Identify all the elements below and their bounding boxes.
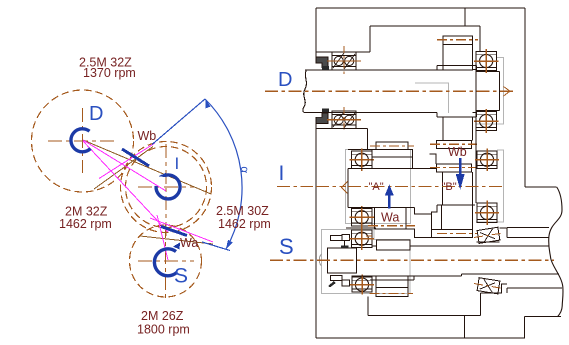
bearing I upper-left ball bbox=[355, 153, 368, 166]
tapered bearing S lower-right bbox=[477, 278, 500, 294]
S coupling cap bottom 1 bbox=[331, 276, 343, 281]
bearing I upper-right races bbox=[477, 154, 497, 165]
svg-text:D: D bbox=[278, 69, 292, 91]
bearing I upper-left square bbox=[352, 151, 373, 169]
shaft S bottom edge right bbox=[462, 273, 560, 275]
svg-text:Wa: Wa bbox=[180, 236, 198, 250]
bearing D lower-right ball bbox=[480, 114, 493, 127]
seal D upper spacer bbox=[322, 66, 329, 70]
rotation arrow gear S arrowhead bbox=[173, 243, 180, 250]
bearing D upper-right square bbox=[476, 52, 497, 71]
bearing D lower-left diagonals bbox=[333, 112, 355, 128]
magenta line D-I mesh to S center bbox=[157, 215, 168, 260]
gear S upper ring bbox=[376, 240, 410, 250]
bearing D lower-left square bbox=[332, 111, 356, 129]
svg-text:2.5M 30Z: 2.5M 30Z bbox=[216, 204, 269, 218]
svg-text:Wb: Wb bbox=[138, 129, 157, 143]
svg-text:S: S bbox=[174, 265, 188, 288]
gray phantom box I assembly left bbox=[346, 150, 411, 224]
bearing D lower-right cross bbox=[474, 120, 499, 122]
svg-text:D: D bbox=[89, 103, 103, 125]
bearing S upper-left races bbox=[352, 233, 373, 244]
bearing S upper-left square bbox=[352, 230, 373, 248]
bearing D upper-right races bbox=[476, 55, 497, 68]
bearing I upper-right cross bbox=[475, 159, 499, 161]
bearing I lower-left cross bbox=[350, 216, 375, 218]
bearing I lower-right ball bbox=[480, 206, 493, 219]
shaft I center mark bbox=[342, 182, 348, 194]
cavity ceiling right of bearing bbox=[507, 227, 549, 229]
housing web between I and S bearings bbox=[346, 227, 376, 229]
shaft I left end face bbox=[347, 169, 349, 208]
gear I pitch circle inner 2M (dashed) bbox=[126, 147, 207, 228]
bearing D lower-left races bbox=[332, 115, 356, 126]
bearing D upper-left races bbox=[332, 56, 356, 67]
shaft D end face bbox=[499, 72, 501, 111]
casing inner pocket top bbox=[370, 25, 480, 27]
bearing I lower-left races bbox=[352, 212, 373, 223]
shaft I top edge bbox=[348, 168, 437, 170]
bearing I lower-right cross bbox=[475, 212, 499, 214]
svg-text:Wb: Wb bbox=[448, 145, 467, 159]
rotation arrow gear I bbox=[156, 175, 180, 199]
casing bore line lower right bbox=[507, 288, 562, 293]
arrow Wb down bbox=[459, 158, 462, 174]
magenta line at I-S mesh to dimension tail bbox=[150, 218, 213, 242]
arc arrowhead bottom bbox=[226, 240, 233, 249]
bearing D upper-left diagonals bbox=[333, 53, 355, 69]
gear S upper pitch stub bbox=[366, 235, 372, 237]
gear B upper pitch line bbox=[430, 167, 477, 169]
seal D upper bbox=[316, 57, 328, 67]
bearing D lower-left center horiz bbox=[327, 119, 361, 121]
bearing I upper-left cross bbox=[350, 159, 375, 161]
housing top of I bearing bbox=[348, 149, 375, 151]
gear A upper shoulder bbox=[372, 149, 413, 157]
gear D centerline horizontal bbox=[48, 140, 114, 142]
gear D pitch circle (dashed) bbox=[32, 90, 134, 192]
gear S pitch circle (dashed) bbox=[130, 225, 202, 297]
centerline shaft I bbox=[277, 186, 346, 188]
S coupling body bbox=[328, 248, 357, 273]
shaft S top edge bbox=[372, 245, 549, 247]
svg-text:"A": "A" bbox=[369, 181, 384, 193]
gear S centerline horizontal bbox=[138, 260, 194, 262]
gray phantom box D right bbox=[476, 57, 504, 124]
shaft D break squiggle bbox=[303, 70, 307, 113]
bearing I upper-right square bbox=[477, 151, 497, 169]
arrow Wa up bbox=[388, 194, 391, 209]
S coupling cap top 1 bbox=[331, 235, 343, 240]
magenta line D center to I-S mesh bbox=[83, 141, 168, 232]
S coupling cap top 2 bbox=[342, 234, 349, 240]
seal D lower bbox=[316, 113, 328, 124]
svg-text:I: I bbox=[175, 154, 180, 173]
pocket left wall bbox=[369, 26, 371, 52]
housing line above D bearing bbox=[316, 51, 370, 53]
svg-text:1462 rpm: 1462 rpm bbox=[59, 217, 112, 231]
bearing S housing step upper bbox=[500, 228, 507, 237]
gear D rim root line bbox=[443, 44, 473, 46]
svg-text:2M 26Z: 2M 26Z bbox=[141, 309, 184, 323]
casing left wall lower bbox=[315, 122, 317, 338]
casing top plate bbox=[316, 7, 525, 9]
bearing I lower-left ball bbox=[355, 211, 368, 224]
casing bore line upper right bbox=[507, 236, 549, 238]
gear S lower block bbox=[376, 280, 408, 297]
gear D hub flange top bbox=[437, 66, 477, 70]
bearing S lower-left races bbox=[352, 280, 372, 289]
rotation arrow gear I arrowhead bbox=[158, 173, 166, 177]
gray phantom line near D hub bbox=[415, 83, 448, 113]
shaft D step at gear bbox=[473, 70, 477, 113]
shaft D bottom edge bbox=[304, 112, 437, 114]
casing left wall upper bbox=[315, 8, 317, 57]
S coupling cap top line bbox=[331, 241, 350, 246]
gear A upper teeth bbox=[376, 142, 408, 149]
gear S lower connectors bbox=[376, 276, 414, 280]
casing right wall bbox=[524, 8, 526, 187]
bearing S upper-left cross bbox=[350, 238, 375, 240]
arrow Wa head bbox=[385, 185, 394, 196]
bearing D lower-right races bbox=[476, 115, 497, 128]
thick blue contact segment Wa (I-S mesh) bbox=[161, 227, 187, 236]
break line wavy right bbox=[549, 187, 563, 317]
gear D lower teeth band bbox=[437, 141, 472, 149]
bearing D lower-left centerline bbox=[343, 107, 345, 132]
bearing D lower-right square bbox=[476, 112, 497, 131]
gear A upper hub sides bbox=[372, 157, 413, 169]
gear D pitch line top bbox=[437, 39, 478, 41]
gear B lower teeth band bbox=[432, 229, 473, 237]
casing floor under gear S bbox=[368, 293, 481, 316]
gear B web sides bbox=[442, 172, 472, 205]
shaft I bottom edge bbox=[348, 207, 414, 209]
bearing I lower-left square bbox=[352, 209, 373, 227]
gear I centerline horizontal bbox=[138, 186, 195, 188]
gear D rim bbox=[443, 36, 473, 70]
S coupling cap bottom 2 bbox=[342, 280, 349, 286]
bearing I lower-right square bbox=[477, 203, 497, 223]
centerline shaft S bbox=[270, 259, 554, 261]
bearing I upper-left races bbox=[352, 154, 373, 165]
bearing S lower-left cross bbox=[350, 284, 374, 286]
centerline shaft D bbox=[265, 90, 513, 92]
gear I centerline vertical bbox=[165, 144, 167, 240]
gray phantom box I right bbox=[476, 150, 504, 222]
shaft D top edge bbox=[305, 69, 443, 71]
casing step under D lower bearing bbox=[316, 129, 367, 150]
svg-text:1800 rpm: 1800 rpm bbox=[137, 323, 190, 337]
bearing housing wall right of pocket bbox=[479, 26, 481, 52]
gear S pitch line bottom bbox=[370, 293, 414, 295]
bearing D upper-left center horiz bbox=[327, 60, 361, 62]
bearing S lower-left ball bbox=[355, 278, 368, 291]
svg-text:1462 rpm: 1462 rpm bbox=[218, 217, 271, 231]
casing web vertical to bottom bbox=[464, 316, 466, 339]
gear A lower hub sides bbox=[375, 208, 406, 230]
brown line at I-S mesh bbox=[140, 236, 213, 244]
bearing D upper-left balls bbox=[334, 56, 343, 65]
bearing I upper-right ball bbox=[480, 153, 493, 166]
gear A pitch line top bbox=[370, 145, 414, 147]
rotation arrow gear S bbox=[154, 249, 177, 276]
gear D centerline vertical bbox=[82, 108, 84, 173]
casing right flange top bbox=[525, 186, 557, 188]
arc arrowhead top bbox=[206, 100, 211, 109]
angle dimension arc bbox=[205, 99, 242, 249]
bearing column wall right bbox=[475, 71, 477, 204]
gear D lower pitch line bbox=[430, 143, 477, 145]
casing bottom right corner bbox=[525, 317, 561, 338]
shaft D right section bottom bbox=[477, 110, 500, 112]
brown line of action at D-I mesh bbox=[94, 147, 153, 190]
bearing S upper-left ball bbox=[355, 232, 368, 245]
casing bottom plate bbox=[316, 337, 525, 339]
shaft S step bbox=[461, 274, 463, 276]
svg-text:1370 rpm: 1370 rpm bbox=[83, 66, 136, 80]
angle dimension tail line bbox=[202, 242, 230, 251]
bearing D upper-right cross bbox=[474, 60, 499, 62]
S shaft left center mark bbox=[319, 254, 321, 266]
gray phantom box S assembly bbox=[322, 230, 411, 294]
arrow Wb head bbox=[456, 174, 465, 190]
bearing D upper-right ball bbox=[480, 54, 493, 67]
gear S lower shoulder line bbox=[370, 279, 414, 281]
gear B lower hub line bbox=[437, 205, 475, 230]
pocket right wall bbox=[464, 8, 466, 26]
spacer step right of gear A bbox=[406, 229, 432, 237]
svg-text:S: S bbox=[279, 234, 294, 259]
casing step left of B upper band bbox=[430, 154, 437, 164]
tapered bearing S lower-right centerline bbox=[474, 284, 503, 289]
shaft D right section top bbox=[477, 71, 500, 73]
S coupling key top (dark) bbox=[341, 245, 348, 248]
rotation arrow gear D bbox=[71, 129, 91, 152]
shaft I steps left of gear B bbox=[414, 205, 437, 230]
S coupling bottom mark (dark) bbox=[328, 281, 336, 287]
bearing D upper-left centerline bbox=[343, 46, 345, 76]
bearing I lower-right races bbox=[477, 206, 497, 219]
bearing D upper-left square bbox=[332, 52, 356, 70]
shaft S bottom edge left bbox=[352, 275, 462, 277]
svg-text:α: α bbox=[238, 166, 251, 174]
gear A lower teeth bottom bbox=[375, 228, 406, 230]
gear I pitch circle outer 2.5M (dashed) bbox=[121, 142, 212, 233]
gear D lower web bbox=[443, 117, 473, 141]
svg-text:I: I bbox=[279, 162, 285, 185]
tapered bearing S upper-right centerline bbox=[474, 233, 503, 238]
bearing S housing step lower bbox=[481, 284, 507, 293]
seal D lower spacer bbox=[322, 108, 329, 112]
thick blue contact segment Wb (D-I mesh) bbox=[122, 149, 149, 166]
gear S lower rim line bbox=[376, 287, 408, 289]
tapered bearing S upper-right bbox=[477, 227, 500, 243]
svg-text:Wa: Wa bbox=[381, 210, 399, 224]
line under tapered bearing upper bbox=[476, 241, 499, 243]
gear B pitch line bottom bbox=[437, 232, 478, 234]
bearing S lower-left square bbox=[352, 277, 372, 292]
magenta line across D-I mesh bbox=[83, 140, 166, 191]
gear B upper teeth band bbox=[437, 164, 472, 172]
gear A pitch line bottom bbox=[368, 225, 415, 227]
shaft D center mark bbox=[504, 87, 511, 97]
gear S centerline vertical bbox=[165, 224, 167, 302]
brown construction line D-I (center line extended) bbox=[83, 140, 211, 194]
svg-text:"B": "B" bbox=[442, 181, 457, 193]
centerline shaft I right bbox=[348, 186, 504, 188]
angle dimension extension line to apex bbox=[152, 99, 205, 145]
bearing D lower-left balls bbox=[334, 115, 343, 124]
gear D hub flange bottom bbox=[437, 113, 477, 117]
